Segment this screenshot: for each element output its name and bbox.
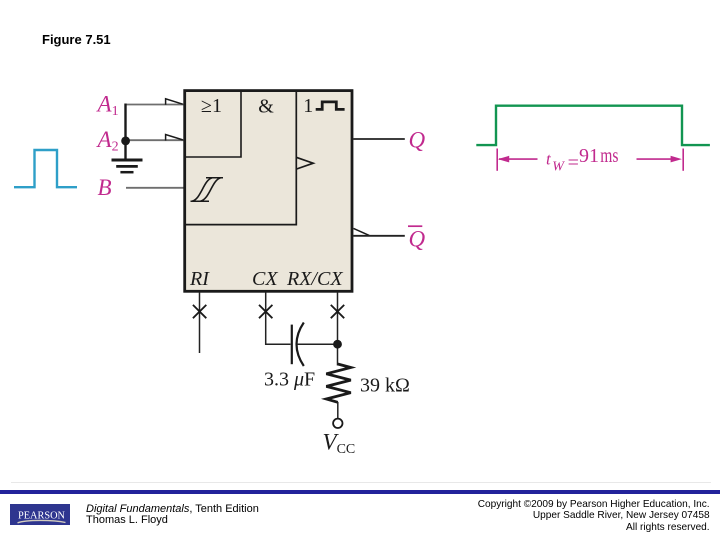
svg-text:CX: CX <box>252 268 278 290</box>
tW dimension tick right <box>682 149 684 171</box>
wire resistor to Vcc <box>337 402 339 418</box>
input edge indicator A2 <box>166 135 183 141</box>
svg-text:RX/CX: RX/CX <box>286 268 343 290</box>
pin label RI <box>189 268 210 290</box>
wire RI pin <box>199 292 201 353</box>
input pulse waveform (trigger) <box>14 150 77 187</box>
polarity indicator on Qbar <box>354 228 370 235</box>
label Qbar <box>408 226 426 251</box>
svg-text:PEARSON: PEARSON <box>18 509 65 521</box>
footer rule <box>0 490 720 493</box>
wire RX/CX pin <box>337 292 339 366</box>
svg-text:RI: RI <box>189 268 210 290</box>
svg-text:Q: Q <box>409 226 426 251</box>
pin label CX <box>252 268 278 290</box>
wire CX pin <box>266 292 291 344</box>
Schmitt trigger hysteresis symbol <box>191 178 224 202</box>
svg-text:A2: A2 <box>96 127 119 155</box>
svg-text:3.3 μF: 3.3 μF <box>264 368 315 390</box>
Pearson logo <box>10 504 71 525</box>
dynamic input indicator <box>297 157 314 169</box>
OR compartment divider <box>185 91 241 157</box>
label tW = 91 ms <box>546 145 619 174</box>
tW dimension arrows <box>498 156 682 163</box>
svg-text:A1: A1 <box>96 92 119 120</box>
label Q <box>409 127 426 152</box>
node A2 label <box>96 127 119 155</box>
footer left text <box>86 504 259 527</box>
wire A2 <box>126 139 185 141</box>
capacitor C curved plate <box>297 323 304 367</box>
label 3.3 uF <box>264 368 315 390</box>
resistor R zigzag <box>326 364 351 402</box>
no-connect X on RX/CX <box>331 305 344 318</box>
wire Qbar output <box>353 235 405 237</box>
logic section divider <box>185 91 297 225</box>
one-shot U1 body <box>185 91 352 292</box>
svg-text:≥1: ≥1 <box>201 95 222 117</box>
label & <box>258 96 274 118</box>
figure title <box>42 32 111 47</box>
wire Q output <box>353 138 405 140</box>
svg-text:B: B <box>98 175 112 200</box>
junction dot on A2 <box>121 137 130 146</box>
wire A1 <box>126 104 185 106</box>
label 39 kOhm <box>360 375 410 397</box>
wire B <box>126 187 184 189</box>
Vcc terminal circle <box>333 419 342 428</box>
label 1 (one-shot) <box>303 95 313 117</box>
no-connect X on CX <box>259 305 272 318</box>
output pulse waveform <box>476 106 710 145</box>
junction dot RX/CX <box>333 340 342 349</box>
footer right text <box>478 499 710 534</box>
label >=1 <box>201 95 222 117</box>
pin label RX/CX <box>286 268 343 290</box>
nonretriggerable pulse icon <box>316 102 345 110</box>
capacitor C plate <box>291 325 293 365</box>
wire riser A1 to ground <box>124 104 126 159</box>
no-connect X on RI <box>193 305 206 318</box>
svg-text:tW=91ms: tW=91ms <box>546 145 619 174</box>
node B label <box>98 175 112 200</box>
tW dimension tick left <box>496 149 498 171</box>
ground symbol <box>112 160 143 172</box>
svg-text:Q: Q <box>409 127 426 152</box>
node A1 label <box>96 92 119 120</box>
svg-text:39 kΩ: 39 kΩ <box>360 375 410 397</box>
svg-text:VCC: VCC <box>323 430 356 458</box>
svg-text:1: 1 <box>303 95 313 117</box>
faint image border bottom <box>11 482 711 483</box>
wire capacitor to junction <box>298 343 338 345</box>
label Vcc <box>323 430 356 458</box>
svg-text:&: & <box>258 96 274 118</box>
input edge indicator A1 <box>166 99 183 105</box>
